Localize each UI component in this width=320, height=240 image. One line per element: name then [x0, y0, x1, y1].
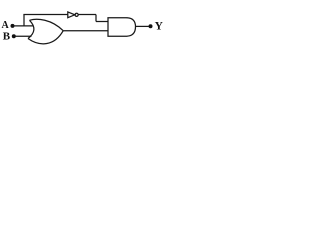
wire OR output to AND bottom input: [63, 30, 108, 32]
inverter bubble: [75, 13, 78, 16]
wire to AND top input: [96, 21, 108, 23]
wire B dot to OR input: [15, 35, 32, 37]
svg-text:B: B: [3, 30, 11, 42]
node A terminal dot: [11, 24, 15, 28]
inverter U1 triangle: [68, 12, 75, 18]
or-gate: [28, 19, 63, 44]
svg-text:Y: Y: [155, 21, 164, 33]
wire A dot to OR input: [14, 25, 34, 27]
wire top to inverter input: [23, 14, 67, 16]
wire down at x96: [95, 15, 97, 22]
output node dot: [149, 24, 153, 28]
wire branch vertical at x24: [23, 15, 25, 26]
wire inverter output: [78, 14, 96, 16]
node B terminal dot: [12, 34, 16, 38]
and-gate: [108, 18, 136, 37]
wire AND output to Y: [136, 25, 149, 27]
